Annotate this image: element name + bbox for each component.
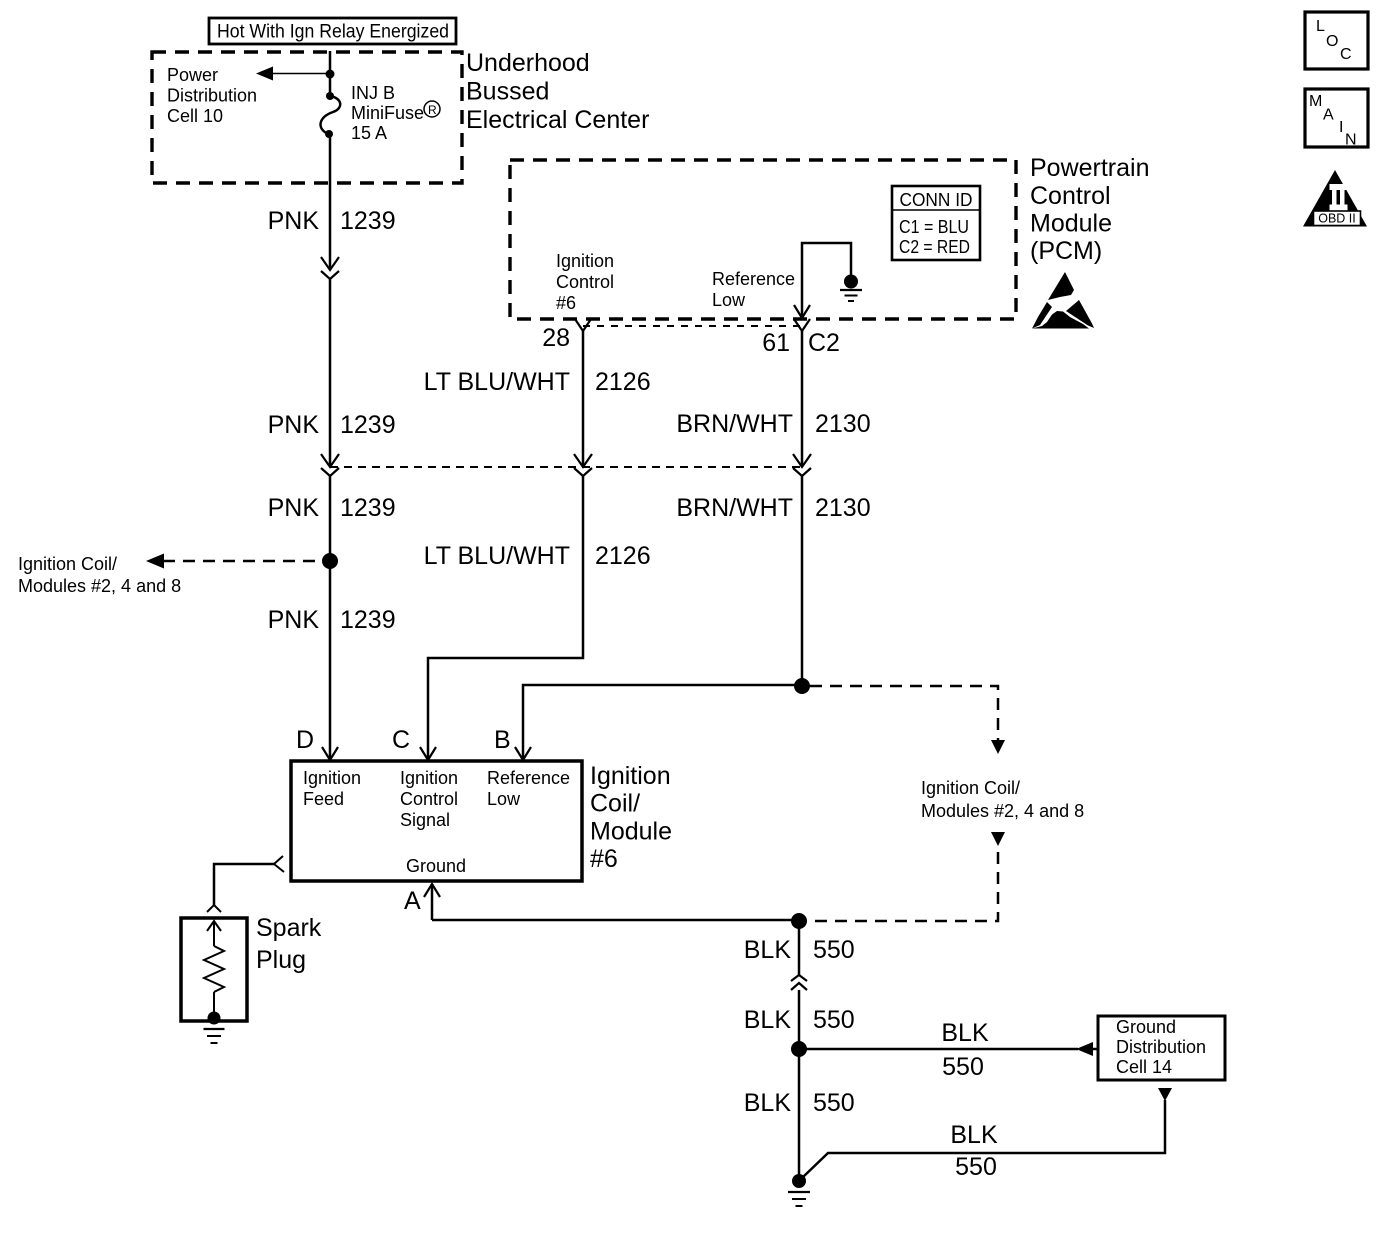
arrow to ignition coils 2,4,8 [146, 554, 164, 569]
label BLK 550 horizontal run1 [941, 1019, 989, 1081]
svg-text:Hot With Ign Relay Energized: Hot With Ign Relay Energized [217, 22, 449, 43]
svg-text:Low: Low [487, 789, 521, 809]
label Ignition Coil/Modules right [921, 778, 1084, 821]
svg-text:Signal: Signal [400, 810, 450, 830]
svg-text:Power: Power [167, 65, 218, 85]
svg-text:C: C [1340, 46, 1352, 63]
label BLK 550 row2 [744, 1006, 855, 1034]
node ground splice [791, 913, 807, 929]
svg-text:C1 = BLU: C1 = BLU [899, 217, 969, 237]
svg-text:PNK: PNK [268, 207, 320, 235]
svg-text:M: M [1309, 93, 1322, 110]
svg-text:61: 61 [762, 329, 790, 357]
svg-text:1239: 1239 [340, 606, 396, 634]
label PNK 1239 row3 [268, 494, 396, 522]
LOC reference box [1305, 12, 1368, 69]
arrow from ground distribution down [1158, 1088, 1172, 1101]
svg-text:Plug: Plug [256, 946, 306, 974]
label INJ B MiniFuse (R) 15 A [351, 83, 424, 143]
wire BLK 550 from ground distribution to ground [802, 1100, 1165, 1178]
svg-text:Control: Control [556, 272, 614, 292]
svg-text:Low: Low [712, 290, 746, 310]
svg-text:Ground: Ground [1116, 1017, 1176, 1037]
label Powertrain Control Module (PCM) [1030, 154, 1150, 265]
svg-text:Coil/: Coil/ [590, 790, 640, 818]
arrow to Power Distribution Cell 10 [256, 67, 273, 81]
arrow into ground distribution [1076, 1042, 1093, 1056]
wire BLK 550 from splice down [798, 921, 801, 975]
OBD II symbol [1303, 170, 1367, 227]
ground inside PCM [840, 275, 862, 302]
svg-text:2130: 2130 [815, 410, 871, 438]
svg-text:Ignition Coil/: Ignition Coil/ [18, 554, 117, 574]
svg-text:Ignition: Ignition [590, 762, 671, 790]
inline connector BLK [791, 975, 807, 990]
svg-text:#6: #6 [556, 293, 576, 313]
wire reference low to pin B [523, 685, 802, 760]
svg-text:Ignition: Ignition [400, 768, 458, 788]
spark plug box [181, 918, 247, 1021]
svg-text:D: D [296, 726, 314, 754]
label Ignition Coil/Modules 2,4,8 left [18, 554, 181, 596]
node splice to ignition coils 2,4,8 [322, 553, 338, 569]
svg-text:Ignition: Ignition [556, 251, 614, 271]
harness inline connector dashed line [330, 466, 802, 468]
arrow down continuation [991, 832, 1005, 846]
svg-text:2126: 2126 [595, 368, 651, 396]
arrow down to coils [991, 740, 1005, 754]
svg-text:R: R [428, 103, 437, 117]
label Power Distribution Cell 10 [167, 65, 257, 126]
svg-text:Distribution: Distribution [167, 86, 257, 106]
svg-text:Distribution: Distribution [1116, 1037, 1206, 1057]
pin B arrow into coil box [515, 747, 531, 760]
svg-text:550: 550 [942, 1053, 984, 1081]
pin C arrow into coil box [420, 747, 436, 760]
label BLK 550 row1 [744, 936, 855, 964]
node junction at fuse top feed [326, 70, 335, 79]
svg-text:O: O [1326, 33, 1338, 50]
connector to coil secondary [274, 856, 284, 872]
svg-text:LT BLU/WHT: LT BLU/WHT [424, 368, 570, 396]
svg-text:MiniFuse: MiniFuse [351, 103, 424, 123]
wire dashed to other ignition coils [163, 560, 330, 563]
coil box labels [303, 768, 570, 876]
svg-text:Cell 14: Cell 14 [1116, 1057, 1172, 1077]
svg-text:Ignition: Ignition [303, 768, 361, 788]
label Ignition Coil/Module #6 [590, 762, 672, 873]
svg-text:Spark: Spark [256, 914, 322, 942]
label Underhood Bussed Electrical Center [466, 49, 649, 134]
svg-text:BLK: BLK [950, 1121, 998, 1149]
svg-text:550: 550 [813, 936, 855, 964]
svg-text:1239: 1239 [340, 494, 396, 522]
svg-text:BLK: BLK [744, 936, 792, 964]
PCM dashed box [510, 160, 1016, 319]
inline connector PNK at crossing [321, 454, 339, 476]
wire reference low inside PCM [802, 243, 851, 318]
svg-text:15 A: 15 A [351, 123, 387, 143]
svg-text:A: A [404, 887, 421, 915]
svg-text:Reference: Reference [487, 768, 570, 788]
wire dashed to ignition coils 2,4,8 right top [810, 686, 998, 740]
wire BRN/WHT below crossing [801, 476, 804, 686]
svg-text:550: 550 [813, 1006, 855, 1034]
svg-text:Modules #2, 4 and 8: Modules #2, 4 and 8 [18, 576, 181, 596]
svg-text:Ignition Coil/: Ignition Coil/ [921, 778, 1020, 798]
svg-text:2126: 2126 [595, 542, 651, 570]
svg-text:550: 550 [813, 1089, 855, 1117]
wire dashed from coils down to ground splice [807, 852, 998, 921]
pin A arrow into coil box bottom [424, 884, 440, 897]
svg-text:PNK: PNK [268, 494, 320, 522]
wire LT BLU/WHT below crossing with jog [428, 476, 583, 760]
svg-text:#6: #6 [590, 845, 618, 873]
svg-text:I: I [1339, 119, 1343, 136]
label LT BLU/WHT 2126 row1 [424, 368, 651, 396]
svg-text:BLK: BLK [744, 1006, 792, 1034]
svg-text:Cell 10: Cell 10 [167, 106, 223, 126]
wire PNK 1239 to splice dashed crossing [329, 279, 332, 467]
svg-text:Ground: Ground [406, 856, 466, 876]
fuse INJ B MiniFuse 15 A [321, 92, 341, 138]
svg-text:2130: 2130 [815, 494, 871, 522]
ground distribution cell 14 box [1098, 1016, 1225, 1080]
wire BLK 550 to ground distribution [799, 1048, 1078, 1051]
label BRN/WHT 2130 row2 [676, 494, 870, 522]
registered trademark symbol [424, 101, 440, 117]
wire ground from pin A to splice [432, 919, 799, 922]
svg-text:C2: C2 [808, 329, 840, 357]
svg-text:BRN/WHT: BRN/WHT [676, 410, 793, 438]
svg-text:BRN/WHT: BRN/WHT [676, 494, 793, 522]
svg-text:A: A [1323, 107, 1334, 124]
svg-text:(PCM): (PCM) [1030, 237, 1102, 265]
spark plug electrode arrow [207, 921, 221, 931]
label LT BLU/WHT 2126 row2 [424, 542, 651, 570]
label Reference Low [712, 269, 795, 310]
svg-text:C2 = RED: C2 = RED [899, 237, 970, 257]
wire from hot box into UBEC [329, 51, 332, 74]
svg-text:1239: 1239 [340, 411, 396, 439]
svg-text:Electrical Center: Electrical Center [466, 106, 649, 134]
ground G103 [788, 1174, 810, 1206]
svg-text:550: 550 [955, 1153, 997, 1181]
svg-text:1239: 1239 [340, 207, 396, 235]
wire BRN/WHT 2130 from pin 61 [801, 331, 804, 467]
svg-text:Module: Module [590, 818, 672, 846]
ESD sensitive device symbol [1032, 272, 1094, 329]
node ground distribution splice [791, 1041, 807, 1057]
wire PNK 1239 to coil pin D [329, 561, 332, 760]
label BLK 550 row3 [744, 1089, 855, 1117]
svg-text:LT BLU/WHT: LT BLU/WHT [424, 542, 570, 570]
svg-text:PNK: PNK [268, 606, 320, 634]
connector chevron above plug [207, 905, 221, 912]
svg-text:PNK: PNK [268, 411, 320, 439]
svg-text:Control: Control [400, 789, 458, 809]
label BLK 550 horizontal run2 [950, 1121, 998, 1181]
spark plug feed wire from coil [214, 864, 274, 905]
wire thin feed to power distribution [271, 73, 330, 75]
svg-text:Bussed: Bussed [466, 78, 549, 106]
svg-text:L: L [1316, 18, 1325, 35]
inline connector on PNK wire [321, 257, 339, 279]
svg-text:BLK: BLK [744, 1089, 792, 1117]
svg-text:Control: Control [1030, 182, 1111, 210]
pin 28 connector Y [575, 319, 591, 331]
ground at spark plug [204, 1012, 225, 1044]
wire LT BLU/WHT 2126 from pin 28 [582, 331, 585, 467]
pin 61 connector Y [794, 319, 810, 331]
label BRN/WHT 2130 row1 [676, 410, 870, 438]
label PNK 1239 row4 [268, 606, 396, 634]
svg-text:Underhood: Underhood [466, 49, 590, 77]
svg-text:BLK: BLK [941, 1019, 989, 1047]
svg-text:N: N [1345, 132, 1357, 149]
label Ignition Control #6 [556, 251, 614, 313]
svg-text:Powertrain: Powertrain [1030, 154, 1150, 182]
svg-text:C: C [392, 726, 410, 754]
wire PNK 1239 from fuse down to inline connector [329, 134, 332, 270]
svg-text:Reference: Reference [712, 269, 795, 289]
svg-text:28: 28 [542, 324, 570, 352]
wire PNK 1239 below crossing [329, 476, 332, 561]
wire BLK 550 lower vertical [798, 1049, 801, 1178]
node splice reference low [794, 678, 810, 694]
CONN ID box [892, 186, 980, 260]
label Spark Plug [256, 914, 322, 974]
svg-text:OBD II: OBD II [1318, 212, 1356, 226]
svg-text:B: B [494, 726, 511, 754]
pin D arrow into coil box [322, 747, 338, 760]
svg-text:Modules #2, 4 and 8: Modules #2, 4 and 8 [921, 801, 1084, 821]
label PNK 1239 row1 [268, 207, 396, 235]
MAIN reference box [1305, 89, 1368, 149]
ignition coil module box [291, 761, 582, 881]
svg-text:Module: Module [1030, 210, 1112, 238]
inline connector BRN/WHT at crossing [793, 454, 811, 476]
pin 61 arrow inside PCM [794, 305, 810, 318]
connector dashed line pins 28/61 [583, 325, 802, 327]
underhood bussed electrical center dashed box [152, 52, 462, 183]
label PNK 1239 row2 [268, 411, 396, 439]
hot label box "Hot With Ign Relay Energized" [209, 18, 456, 44]
spark plug resistor [204, 946, 224, 992]
svg-text:INJ B: INJ B [351, 83, 395, 103]
wire BLK 550 to ground splice [798, 990, 801, 1049]
svg-text:CONN ID: CONN ID [900, 190, 973, 210]
inline connector LT BLU/WHT at crossing [574, 454, 592, 476]
svg-text:Feed: Feed [303, 789, 344, 809]
wire junction to fuse [329, 74, 332, 96]
